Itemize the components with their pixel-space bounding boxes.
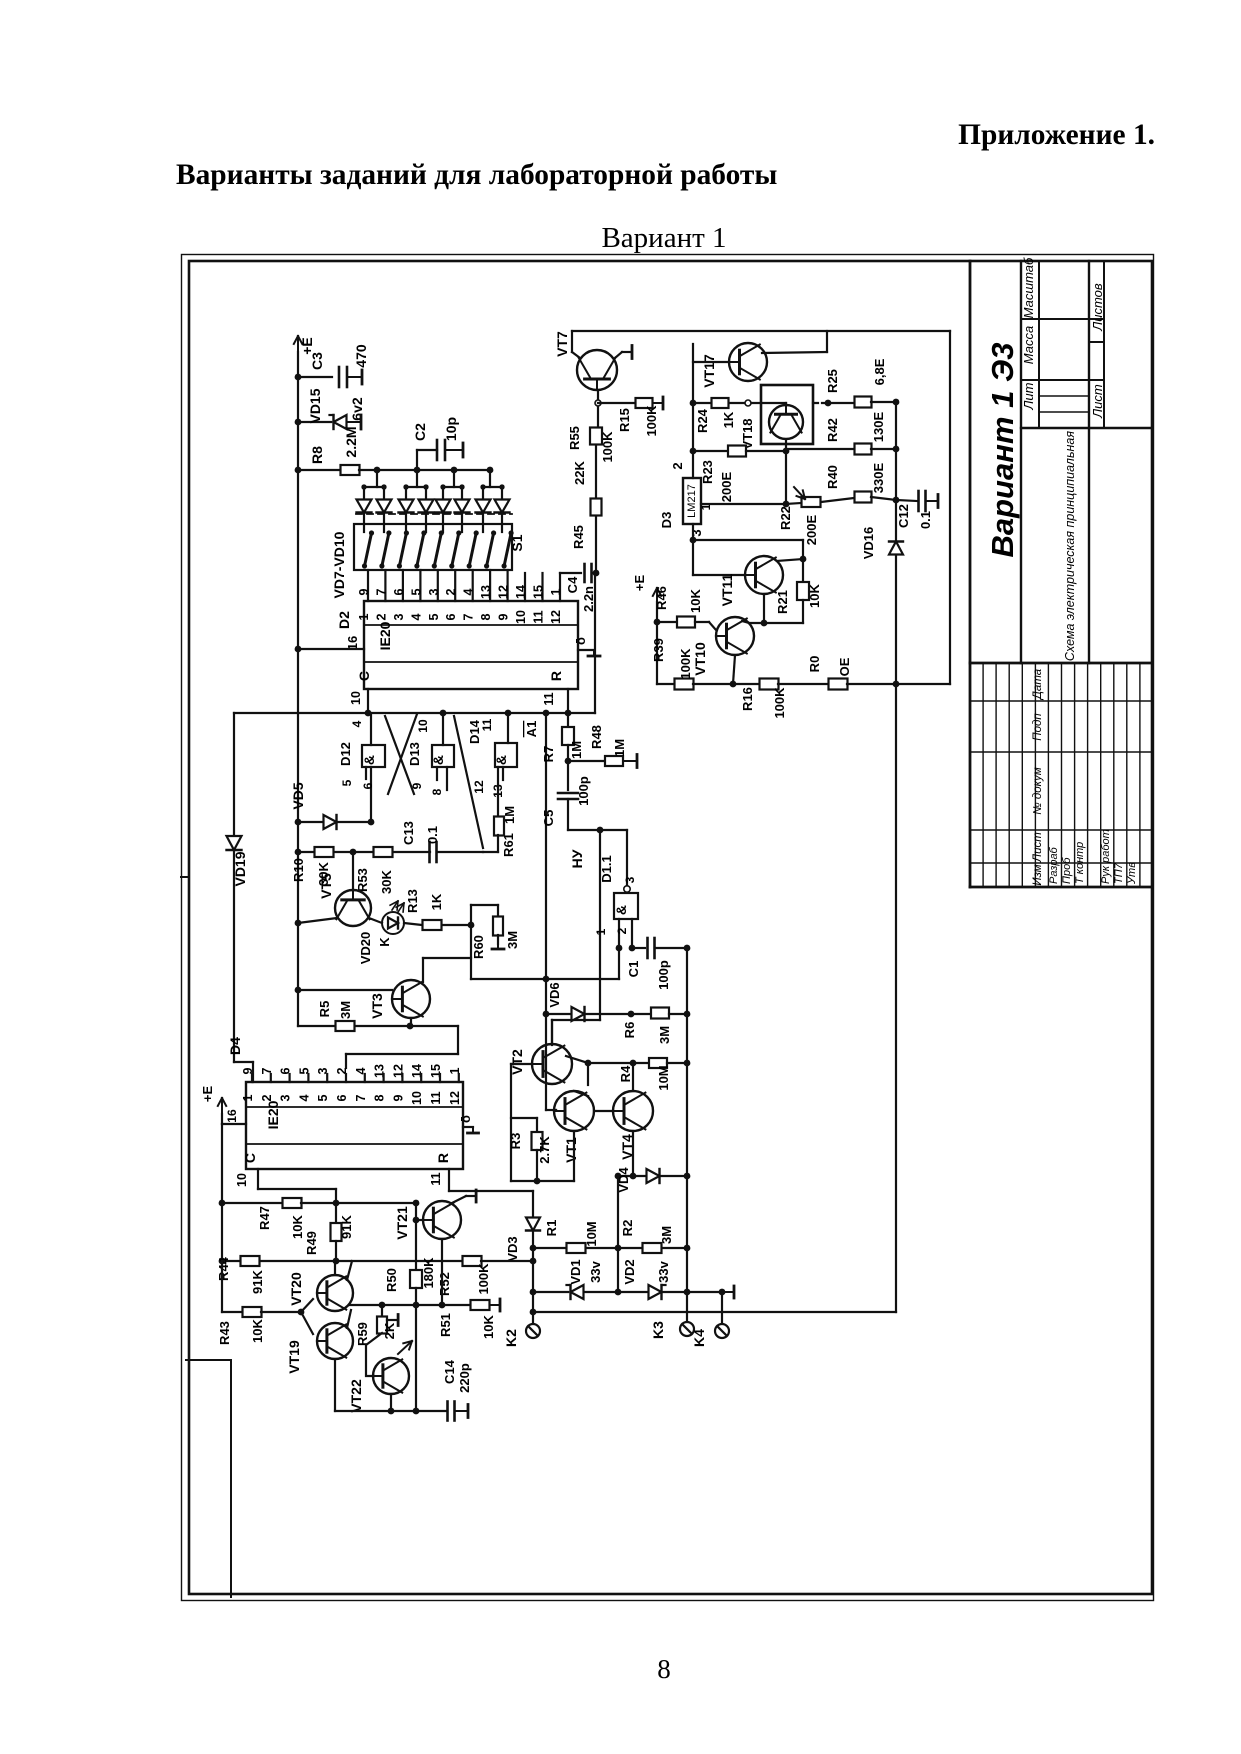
transistor VT20 [317, 1275, 353, 1311]
wire right loop [949, 331, 951, 684]
resistor R42 [786, 448, 855, 450]
svg-text:R39: R39 [651, 638, 666, 662]
transistor VT11 [745, 556, 783, 594]
wire R13 to node [470, 905, 472, 979]
frame tick mark [181, 876, 189, 878]
resistor R2 [618, 1247, 642, 1249]
transistor VT22 [373, 1358, 409, 1394]
IC D4 pin16 +E [221, 1098, 223, 1122]
wire R23 row [693, 450, 728, 452]
svg-text:1K: 1K [721, 411, 736, 428]
svg-text:R: R [435, 1153, 451, 1163]
svg-text:&: & [493, 755, 509, 765]
diode VD3 [532, 1191, 534, 1217]
svg-text:100K: 100K [600, 431, 615, 463]
svg-text:НУ: НУ [569, 849, 585, 868]
svg-text:7: 7 [374, 588, 388, 595]
wire VD2 column [617, 1176, 619, 1292]
svg-text:Масса: Масса [1021, 326, 1036, 364]
drawing frame outer [182, 255, 1154, 1601]
svg-text:1: 1 [549, 588, 563, 595]
wire +E bus [297, 352, 299, 1026]
svg-text:15: 15 [532, 585, 546, 599]
svg-text:R13: R13 [405, 889, 420, 913]
svg-text:ОЕ: ОЕ [837, 657, 852, 676]
svg-text:D1.1: D1.1 [599, 855, 614, 882]
svg-text:1: 1 [241, 1094, 255, 1101]
wire LM217 pin1 row [701, 503, 786, 505]
svg-text:2.2n: 2.2n [581, 586, 596, 612]
svg-text:3M: 3M [659, 1226, 674, 1244]
resistor R24 [693, 402, 711, 404]
svg-text:220p: 220p [457, 1363, 472, 1393]
svg-text:11: 11 [429, 1091, 443, 1104]
svg-text:6v2: 6v2 [349, 397, 365, 421]
svg-text:R47: R47 [257, 1206, 272, 1230]
svg-text:R16: R16 [740, 687, 755, 711]
wire VT18 to R25 dashed [813, 402, 828, 404]
capacitor C3 [338, 367, 341, 387]
svg-text:3: 3 [689, 529, 704, 536]
resistor R51 [442, 1304, 470, 1306]
svg-text:Т контр: Т контр [1074, 842, 1086, 884]
svg-text:1: 1 [594, 928, 608, 935]
wire VT2 base [511, 1063, 532, 1065]
svg-text:10: 10 [410, 1091, 424, 1105]
svg-text:100p: 100p [656, 960, 671, 990]
wire VT11 emitter [763, 594, 765, 623]
svg-text:R43: R43 [217, 1321, 232, 1345]
svg-text:100K: 100K [644, 405, 659, 437]
svg-text:VT1: VT1 [563, 1137, 579, 1163]
transistor VT1 [554, 1091, 594, 1131]
svg-text:C14: C14 [442, 1359, 457, 1384]
wire D4 pin11 to VD3 [448, 1169, 450, 1191]
resistor R60 [471, 904, 498, 906]
resistor R16 [733, 683, 759, 685]
svg-text:3: 3 [279, 1094, 293, 1101]
svg-text:R7: R7 [541, 746, 556, 763]
svg-text:VT7: VT7 [554, 331, 570, 357]
svg-text:LM217: LM217 [686, 484, 698, 518]
capacitor C13 [428, 842, 431, 862]
IC D4 pin10 wire [257, 1169, 259, 1189]
svg-text:VT11: VT11 [719, 573, 735, 606]
resistor R15 [598, 402, 636, 404]
svg-text:D3: D3 [659, 512, 674, 529]
resistor R47 [222, 1202, 282, 1204]
wire gate rail [234, 712, 595, 714]
svg-text:C2: C2 [412, 423, 428, 441]
LED VD20 [369, 918, 382, 923]
resistor R10 [315, 847, 334, 857]
resistor R52 [463, 1256, 482, 1266]
svg-text:R1: R1 [544, 1220, 559, 1237]
svg-text:2: 2 [374, 613, 388, 620]
svg-text:D12: D12 [338, 742, 353, 766]
gate D12 [370, 713, 372, 745]
svg-text:VD16: VD16 [861, 527, 876, 560]
svg-text:100K: 100K [772, 687, 787, 719]
svg-text:K: K [377, 937, 392, 947]
svg-text:R23: R23 [700, 460, 715, 484]
svg-text:C12: C12 [896, 504, 911, 528]
svg-text:R49: R49 [304, 1231, 319, 1255]
svg-text:R42: R42 [825, 418, 840, 442]
svg-text:ТП7: ТП7 [1113, 862, 1125, 884]
svg-text:100K: 100K [476, 1263, 491, 1295]
resistor R6 [651, 1008, 669, 1019]
svg-text:9: 9 [391, 1094, 405, 1101]
terminal K4 [721, 1292, 723, 1322]
wire VT20 emitter row [350, 1304, 442, 1306]
capacitor C14 [446, 1402, 449, 1421]
svg-text:470: 470 [353, 344, 369, 368]
svg-text:Вариант 1 Э3: Вариант 1 Э3 [985, 342, 1020, 557]
svg-text:VT22: VT22 [348, 1379, 364, 1413]
svg-text:2: 2 [670, 462, 685, 469]
svg-text:100K: 100K [678, 648, 693, 680]
svg-text:91K: 91K [339, 1214, 354, 1238]
svg-text:VD15: VD15 [307, 388, 323, 423]
svg-text:VD3: VD3 [505, 1236, 520, 1261]
svg-text:R61: R61 [501, 833, 516, 857]
IC D4 IE20 box [246, 1082, 463, 1169]
svg-text:K3: K3 [650, 1321, 666, 1339]
wire top rail [572, 330, 950, 332]
left grid rows [982, 663, 984, 887]
svg-text:R24: R24 [695, 408, 710, 433]
svg-text:VD7-VD10: VD7-VD10 [331, 531, 347, 598]
resistor R7 [594, 573, 596, 713]
transistor VT2 [532, 1044, 572, 1084]
svg-text:R22: R22 [778, 506, 793, 530]
svg-text:12: 12 [448, 1091, 462, 1105]
wire C5 to D1.1 [568, 829, 627, 831]
svg-text:10M: 10M [584, 1221, 599, 1246]
transistor VT5 [352, 852, 354, 890]
transistor VT17 [729, 343, 767, 381]
svg-text:Утв: Утв [1126, 862, 1138, 885]
svg-text:D2: D2 [336, 611, 352, 629]
svg-text:Дата: Дата [1032, 669, 1044, 701]
diode VD4 [618, 1175, 646, 1177]
svg-text:8: 8 [373, 1094, 387, 1101]
wire VT1 emitter [573, 1131, 575, 1181]
svg-text:11: 11 [532, 610, 546, 623]
svg-text:2K: 2K [382, 1322, 397, 1339]
left grid columns [970, 862, 1152, 864]
svg-text:VD1: VD1 [568, 1259, 583, 1284]
svg-text:6: 6 [392, 588, 406, 595]
svg-text:C3: C3 [309, 352, 325, 370]
svg-text:180K: 180K [421, 1257, 436, 1289]
svg-text:R46: R46 [654, 586, 669, 610]
transistor VT3 [392, 980, 430, 1018]
resistor R4 [566, 1056, 588, 1063]
svg-text:6: 6 [335, 1094, 349, 1101]
svg-text:16: 16 [225, 1109, 239, 1123]
capacitor C5 [567, 761, 569, 790]
wire VT17 base column [692, 344, 694, 478]
svg-text:Схема электрическая принципиал: Схема электрическая принципиальная [1063, 431, 1077, 661]
resistor R59 [381, 1305, 383, 1316]
svg-text:7: 7 [462, 613, 476, 620]
VT21 collector ground [452, 1196, 466, 1203]
terminal K2 [532, 1292, 534, 1322]
svg-text:R52: R52 [437, 1272, 452, 1296]
svg-text:K2: K2 [503, 1329, 519, 1347]
svg-text:5: 5 [409, 588, 423, 595]
diode VD19 [233, 713, 235, 835]
svg-text:10K: 10K [250, 1318, 265, 1342]
svg-text:8: 8 [479, 613, 493, 620]
svg-text:R3: R3 [508, 1133, 523, 1150]
diode VD16 [895, 402, 897, 540]
transistor VT19 [317, 1323, 353, 1359]
resistor R0 [829, 679, 848, 690]
resistor R53 [374, 847, 393, 857]
svg-text:Подп: Подп [1032, 713, 1044, 741]
IC D4 pin stubs [251, 1074, 253, 1082]
wire anode rail [359, 469, 490, 471]
svg-text:12: 12 [497, 585, 511, 599]
svg-text:3: 3 [623, 876, 637, 883]
svg-text:R2: R2 [620, 1220, 635, 1237]
svg-text:10K: 10K [688, 588, 703, 612]
transistor VT21 [423, 1201, 461, 1239]
svg-text:R0: R0 [807, 656, 822, 673]
svg-text:6: 6 [361, 782, 375, 789]
wire LM217 pin3 down [692, 524, 694, 575]
svg-text:R60: R60 [471, 935, 486, 959]
svg-text:3: 3 [392, 613, 406, 620]
resistor R21 [797, 582, 809, 600]
svg-text:VT20: VT20 [288, 1272, 304, 1306]
svg-text:9: 9 [497, 613, 511, 620]
capacitor C12 [896, 500, 917, 501]
svg-text:4: 4 [297, 1094, 311, 1101]
svg-text:30K: 30K [379, 869, 394, 893]
svg-text:VD6: VD6 [547, 982, 562, 1007]
svg-text:R50: R50 [384, 1268, 399, 1292]
resistor R1 [533, 1247, 566, 1249]
svg-text:C: C [242, 1153, 258, 1163]
svg-text:ō: ō [458, 1115, 473, 1123]
svg-text:№ докум: № докум [1032, 767, 1044, 815]
svg-text:11: 11 [429, 1172, 443, 1185]
wire R10 R53 C13 rail [298, 851, 314, 853]
wires S1 to D2 pins [367, 570, 369, 601]
drawing frame inner [189, 261, 1152, 1594]
resistor R49 [335, 1203, 337, 1223]
svg-text:R48: R48 [589, 725, 604, 749]
resistor R8 [298, 469, 341, 471]
IC D2 pin 16 wire [298, 648, 364, 650]
svg-text:330E: 330E [871, 462, 886, 493]
svg-text:10: 10 [416, 719, 430, 733]
svg-text:8: 8 [430, 788, 444, 795]
node +E supply arrow [297, 336, 299, 360]
svg-text:VT19: VT19 [286, 1340, 302, 1374]
svg-text:R5: R5 [317, 1001, 332, 1018]
svg-text:9: 9 [357, 588, 371, 595]
IC D2 IE20 box [364, 601, 578, 689]
diode VD6 [546, 1013, 570, 1015]
svg-text:0.1: 0.1 [425, 826, 440, 844]
svg-text:R4: R4 [618, 1065, 633, 1082]
capacitor C4 [560, 572, 581, 574]
wire bottom rail C14 [334, 1359, 336, 1411]
svg-text:33v: 33v [588, 1260, 603, 1282]
transistor VT7 [577, 350, 617, 390]
svg-text:VT10: VT10 [692, 642, 708, 676]
svg-text:R44: R44 [216, 1256, 231, 1281]
svg-text:1M: 1M [612, 739, 627, 757]
wire VT5 emitter [298, 918, 337, 923]
transistor VT10 [716, 617, 754, 655]
svg-text:8: 8 [657, 1654, 671, 1684]
svg-text:Изм: Изм [1032, 864, 1044, 885]
svg-text:130E: 130E [871, 411, 886, 442]
resistor R44 [221, 1203, 223, 1261]
svg-text:Разраб: Разраб [1048, 846, 1060, 884]
svg-text:VD5: VD5 [290, 782, 306, 809]
svg-text:R40: R40 [825, 465, 840, 489]
svg-text:200E: 200E [719, 471, 734, 502]
svg-text:22K: 22K [572, 460, 587, 484]
switch S1 contacts [365, 533, 372, 566]
svg-text:Рук работ: Рук работ [1100, 829, 1112, 884]
svg-text:VT17: VT17 [701, 354, 717, 388]
IC D2 pin 10 wire [367, 689, 369, 713]
svg-text:4: 4 [462, 588, 476, 595]
svg-text:R55: R55 [567, 426, 582, 450]
terminal K3 [686, 1292, 688, 1320]
svg-text:10K: 10K [807, 583, 822, 607]
wire VD15 branch [298, 421, 331, 423]
resistor R40 [855, 492, 872, 503]
svg-text:R25: R25 [825, 369, 840, 393]
svg-text:Лист: Лист [1090, 384, 1105, 419]
svg-text:3: 3 [427, 588, 441, 595]
gate D13 [442, 713, 444, 745]
svg-text:C5: C5 [541, 810, 556, 827]
svg-text:C: C [356, 671, 372, 681]
gate D1.1 outputs [618, 919, 620, 948]
svg-text:Проб: Проб [1061, 857, 1073, 884]
resistor R48 [568, 760, 604, 762]
svg-text:1K: 1K [429, 893, 444, 910]
svg-text:13: 13 [479, 585, 493, 599]
resistor R55 [590, 428, 602, 445]
wire C3 branch [298, 376, 332, 378]
svg-text:+E: +E [200, 1086, 215, 1103]
svg-text:5: 5 [340, 779, 354, 786]
title block designation row line [1020, 261, 1022, 663]
svg-text:D13: D13 [407, 742, 422, 766]
svg-text:+E: +E [632, 575, 647, 592]
wire gate crossings [385, 716, 414, 794]
svg-text:12: 12 [472, 780, 486, 794]
svg-text:&: & [361, 755, 377, 765]
zener VD1 [533, 1291, 568, 1293]
svg-text:R53: R53 [355, 868, 370, 892]
svg-text:0.1: 0.1 [918, 511, 933, 529]
resistor R46 [657, 621, 676, 623]
wire to K4 [687, 1291, 722, 1293]
gate D1.1 [624, 886, 630, 892]
svg-text:1M: 1M [569, 741, 584, 759]
regulator D3 LM217 [683, 478, 701, 524]
svg-text:Листов: Листов [1090, 283, 1105, 332]
diode VD5 [298, 821, 322, 823]
svg-text:C13: C13 [401, 821, 416, 845]
svg-text:1: 1 [357, 613, 371, 620]
frame corner box top-left [186, 1359, 231, 1361]
svg-text:5: 5 [427, 613, 441, 620]
svg-text:10p: 10p [443, 417, 459, 441]
svg-text:3M: 3M [657, 1026, 672, 1044]
svg-text:R10: R10 [291, 858, 306, 882]
svg-text:Лист: Лист [1032, 832, 1044, 863]
zener VD2 [618, 1291, 647, 1293]
svg-text:&: & [430, 755, 446, 765]
svg-text:VD2: VD2 [622, 1259, 637, 1284]
svg-text:4: 4 [409, 613, 423, 620]
zener VD15 [334, 415, 347, 429]
svg-text:10M: 10M [656, 1065, 671, 1090]
capacitor C2 [416, 450, 418, 470]
svg-text:10: 10 [349, 691, 363, 705]
wire pin2 bus D4 [457, 1026, 459, 1054]
switch S1 box [354, 524, 512, 570]
resistor R25 [828, 402, 854, 404]
svg-text:7: 7 [354, 1094, 368, 1101]
svg-text:11: 11 [542, 692, 556, 705]
svg-text:VT3: VT3 [369, 993, 385, 1019]
IC D2 pin 11 wire [567, 689, 569, 713]
resistor R45 [591, 499, 602, 516]
svg-text:200E: 200E [804, 514, 819, 545]
svg-text:R: R [548, 671, 564, 681]
svg-text:12: 12 [549, 610, 563, 624]
gate D14 [507, 713, 509, 743]
svg-text:Вариант 1: Вариант 1 [601, 222, 726, 254]
wire VT7 emitter node [597, 391, 599, 399]
svg-text:IE20: IE20 [265, 1100, 281, 1129]
svg-text:R21: R21 [775, 590, 790, 614]
svg-text:R15: R15 [617, 408, 632, 432]
wire dashed cathode line [356, 513, 512, 515]
resistor R5 [298, 1025, 335, 1027]
svg-text:R45: R45 [571, 525, 586, 549]
svg-text:K4: K4 [691, 1329, 707, 1347]
svg-text:2: 2 [444, 588, 458, 595]
resistor R50 [415, 1203, 417, 1270]
svg-text:VT21: VT21 [394, 1206, 410, 1240]
svg-text:R8: R8 [309, 446, 325, 464]
svg-text:10: 10 [514, 610, 528, 624]
svg-text:91K: 91K [250, 1269, 265, 1293]
resistor R23 [728, 446, 746, 457]
title block header row line [1038, 261, 1040, 428]
svg-text:R51: R51 [438, 1313, 453, 1337]
svg-text:1M: 1M [502, 806, 517, 824]
wire right rail [686, 948, 688, 1292]
diodes VD7-VD10 pairs [376, 470, 378, 487]
svg-text:Варианты заданий для лаборатор: Варианты заданий для лабораторной работы [176, 159, 777, 191]
